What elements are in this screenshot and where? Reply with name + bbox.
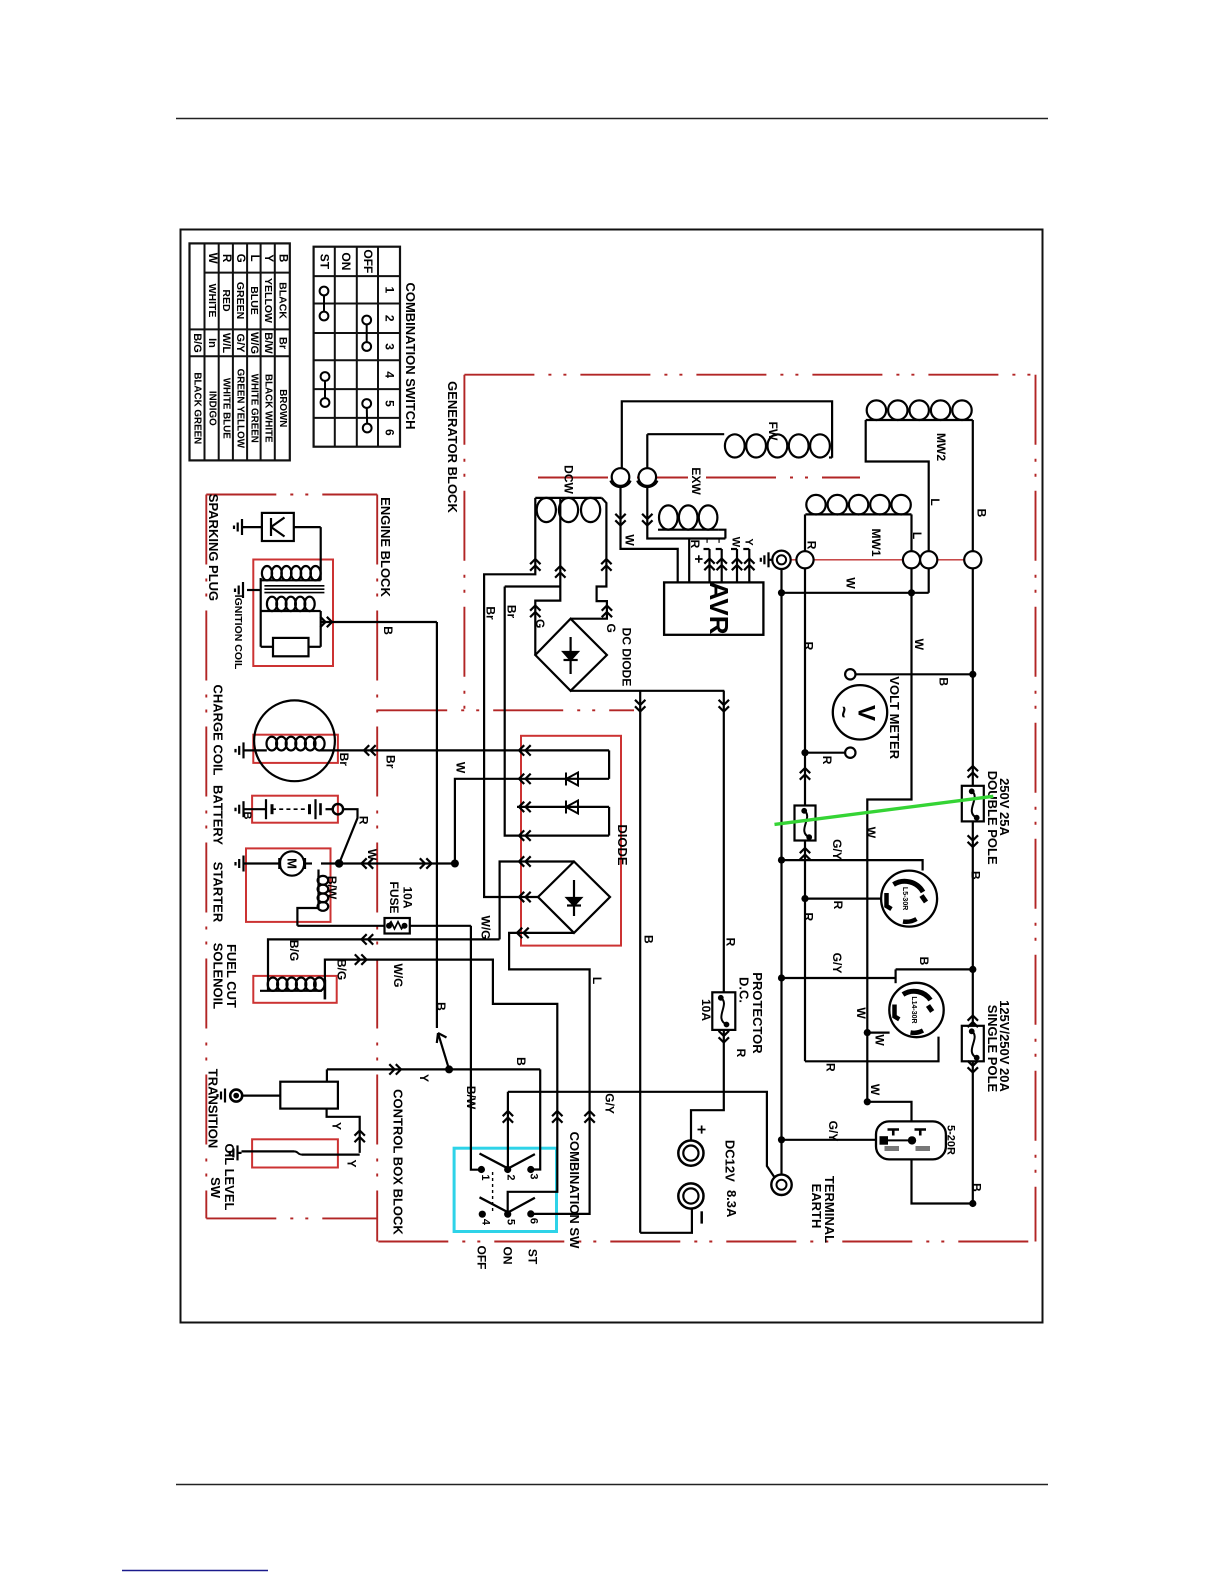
svg-text:B: B xyxy=(514,1057,528,1066)
svg-text:+: + xyxy=(690,555,707,564)
svg-text:R: R xyxy=(802,913,816,922)
svg-text:M: M xyxy=(285,858,300,869)
svg-text:In: In xyxy=(206,338,218,348)
svg-text:PROTECTOR: PROTECTOR xyxy=(750,972,765,1054)
svg-text:GENERATOR BLOCK: GENERATOR BLOCK xyxy=(445,381,460,513)
svg-text:5-20R: 5-20R xyxy=(945,1125,957,1155)
svg-text:+: + xyxy=(692,1125,709,1134)
svg-text:L: L xyxy=(704,537,716,544)
svg-text:OFF: OFF xyxy=(474,1246,488,1270)
svg-text:Y: Y xyxy=(417,1074,431,1082)
svg-text:STARTER: STARTER xyxy=(211,862,226,923)
svg-text:L: L xyxy=(928,498,942,505)
svg-text:W: W xyxy=(365,849,379,861)
svg-text:WHITE: WHITE xyxy=(206,284,218,318)
svg-text:Y: Y xyxy=(262,254,274,262)
svg-text:ST: ST xyxy=(526,1249,540,1265)
svg-text:BLUE: BLUE xyxy=(248,286,260,315)
svg-text:BLACK WHITE: BLACK WHITE xyxy=(263,374,274,443)
svg-text:R: R xyxy=(220,254,232,263)
svg-text:R: R xyxy=(357,816,371,825)
svg-text:L: L xyxy=(910,532,924,539)
svg-text:COMBINATION SWITCH: COMBINATION SWITCH xyxy=(403,282,418,429)
svg-text:4: 4 xyxy=(480,1219,492,1226)
svg-text:W: W xyxy=(730,537,742,548)
svg-text:ON: ON xyxy=(501,1247,515,1265)
svg-text:AVR: AVR xyxy=(704,582,734,635)
svg-text:Br: Br xyxy=(277,337,289,350)
svg-text:B/G: B/G xyxy=(335,959,349,980)
svg-text:DC DIODE: DC DIODE xyxy=(620,628,634,687)
svg-text:VOLT METER: VOLT METER xyxy=(887,676,902,759)
svg-text:ON: ON xyxy=(339,252,353,270)
svg-text:DC12V: DC12V xyxy=(722,1140,737,1182)
svg-text:R: R xyxy=(820,756,834,765)
svg-text:W: W xyxy=(873,1034,887,1046)
svg-text:W/G: W/G xyxy=(248,332,260,354)
svg-text:IGNITION COIL: IGNITION COIL xyxy=(232,595,244,670)
svg-text:BLACK GREEN: BLACK GREEN xyxy=(192,372,203,444)
svg-text:TERMINAL: TERMINAL xyxy=(822,1176,837,1243)
svg-text:G/Y: G/Y xyxy=(830,839,844,860)
svg-text:G: G xyxy=(234,254,246,263)
svg-text:B: B xyxy=(936,677,950,686)
svg-text:RED: RED xyxy=(220,289,232,312)
svg-text:3: 3 xyxy=(528,1173,540,1179)
svg-text:4: 4 xyxy=(382,371,396,378)
svg-text:2: 2 xyxy=(382,315,396,322)
svg-text:WHITE GREEN: WHITE GREEN xyxy=(249,374,260,443)
svg-text:W: W xyxy=(854,1007,868,1019)
svg-text:B/W: B/W xyxy=(464,1086,478,1110)
svg-text:W: W xyxy=(623,534,637,546)
svg-text:Br: Br xyxy=(505,605,519,619)
svg-text:B: B xyxy=(970,1183,984,1192)
svg-text:DIODE: DIODE xyxy=(615,824,630,866)
svg-text:8.3A: 8.3A xyxy=(724,1190,739,1218)
svg-text:BATTERY: BATTERY xyxy=(211,785,226,845)
svg-text:L: L xyxy=(248,255,260,262)
svg-text:R: R xyxy=(831,901,845,910)
svg-text:Br: Br xyxy=(384,755,398,769)
svg-text:SW: SW xyxy=(208,1177,223,1199)
svg-text:INDIGO: INDIGO xyxy=(206,391,217,426)
svg-text:WHITE BLUE: WHITE BLUE xyxy=(221,378,232,439)
svg-text:W/G: W/G xyxy=(479,916,493,940)
svg-text:W: W xyxy=(868,1084,882,1096)
svg-text:BLACK: BLACK xyxy=(277,282,289,319)
svg-text:Y: Y xyxy=(743,538,755,546)
svg-text:10A: 10A xyxy=(699,999,713,1021)
svg-text:FW: FW xyxy=(766,422,780,441)
svg-text:B/W: B/W xyxy=(262,332,274,354)
svg-text:FUSE: FUSE xyxy=(387,881,401,913)
svg-text:W: W xyxy=(843,577,857,589)
svg-text:W: W xyxy=(864,827,878,839)
svg-text:R: R xyxy=(824,1063,838,1072)
svg-text:V: V xyxy=(853,705,880,721)
svg-text:B: B xyxy=(975,509,989,518)
svg-text:Br: Br xyxy=(484,606,498,620)
svg-text:W/L: W/L xyxy=(220,333,232,353)
svg-text:B: B xyxy=(968,871,982,880)
svg-text:B: B xyxy=(434,1002,448,1011)
svg-text:G: G xyxy=(533,619,547,628)
svg-text:EXW: EXW xyxy=(689,467,703,495)
svg-text:~: ~ xyxy=(832,706,855,718)
svg-text:Y: Y xyxy=(345,1159,359,1167)
svg-text:Br: Br xyxy=(337,753,351,767)
svg-text:OFF: OFF xyxy=(361,249,375,273)
svg-text:CONTROL BOX BLOCK: CONTROL BOX BLOCK xyxy=(391,1089,406,1235)
svg-text:GREEN: GREEN xyxy=(234,282,246,319)
svg-text:ENGINE BLOCK: ENGINE BLOCK xyxy=(378,497,393,597)
svg-text:R: R xyxy=(805,541,819,550)
svg-text:R: R xyxy=(688,540,702,549)
svg-text:B/W: B/W xyxy=(325,876,339,900)
svg-text:B/G: B/G xyxy=(191,333,203,353)
svg-text:W: W xyxy=(206,253,218,264)
svg-text:BROWN: BROWN xyxy=(277,389,288,427)
svg-text:10A: 10A xyxy=(401,886,415,908)
svg-text:D.C.: D.C. xyxy=(737,977,752,1003)
svg-text:L: L xyxy=(716,537,728,544)
svg-text:SINGLE POLE: SINGLE POLE xyxy=(985,1005,1000,1093)
svg-text:GREEN YELLOW: GREEN YELLOW xyxy=(235,369,246,449)
svg-text:SPARKING PLUG: SPARKING PLUG xyxy=(206,494,221,601)
svg-text:G/Y: G/Y xyxy=(830,953,844,974)
svg-text:ST: ST xyxy=(318,254,332,270)
svg-text:W: W xyxy=(912,639,926,651)
svg-text:W: W xyxy=(453,762,467,774)
svg-text:DCW: DCW xyxy=(562,465,576,494)
svg-text:2: 2 xyxy=(505,1174,517,1180)
svg-text:5: 5 xyxy=(505,1219,517,1225)
svg-text:B: B xyxy=(381,626,395,635)
svg-text:SOLENOIL: SOLENOIL xyxy=(211,943,226,1010)
svg-text:EARTH: EARTH xyxy=(809,1184,824,1229)
svg-text:R: R xyxy=(734,1049,748,1058)
svg-text:COMBINATION SW: COMBINATION SW xyxy=(567,1132,582,1249)
svg-text:G/Y: G/Y xyxy=(602,1093,616,1114)
svg-text:B: B xyxy=(917,957,931,966)
svg-text:G/Y: G/Y xyxy=(234,334,246,354)
svg-text:B: B xyxy=(277,254,289,262)
svg-text:OIL LEVEL: OIL LEVEL xyxy=(222,1144,237,1211)
svg-text:6: 6 xyxy=(382,429,396,436)
svg-text:YELLOW: YELLOW xyxy=(262,278,274,323)
svg-text:B: B xyxy=(641,935,655,944)
svg-text:1: 1 xyxy=(479,1174,491,1180)
svg-text:L: L xyxy=(590,977,604,984)
svg-text:B/G: B/G xyxy=(287,940,301,961)
svg-text:R: R xyxy=(723,938,737,947)
svg-text:3: 3 xyxy=(382,343,396,350)
svg-text:TRANSITION: TRANSITION xyxy=(206,1069,221,1148)
svg-text:MW2: MW2 xyxy=(934,433,948,461)
svg-text:5: 5 xyxy=(382,400,396,407)
svg-text:6: 6 xyxy=(528,1218,540,1224)
svg-text:B: B xyxy=(241,812,253,820)
svg-text:L5-30R: L5-30R xyxy=(901,887,908,910)
svg-text:DOUBLE POLE: DOUBLE POLE xyxy=(985,771,1000,865)
svg-text:MW1: MW1 xyxy=(869,529,883,557)
svg-text:CHARGE COIL: CHARGE COIL xyxy=(211,685,226,776)
svg-text:Y: Y xyxy=(330,1122,344,1130)
svg-text:1: 1 xyxy=(382,286,396,293)
svg-text:L14-30R: L14-30R xyxy=(910,996,917,1023)
svg-text:R: R xyxy=(802,642,816,651)
svg-text:G: G xyxy=(604,624,618,633)
svg-text:W/G: W/G xyxy=(391,964,405,988)
svg-text:G/Y: G/Y xyxy=(826,1121,840,1142)
